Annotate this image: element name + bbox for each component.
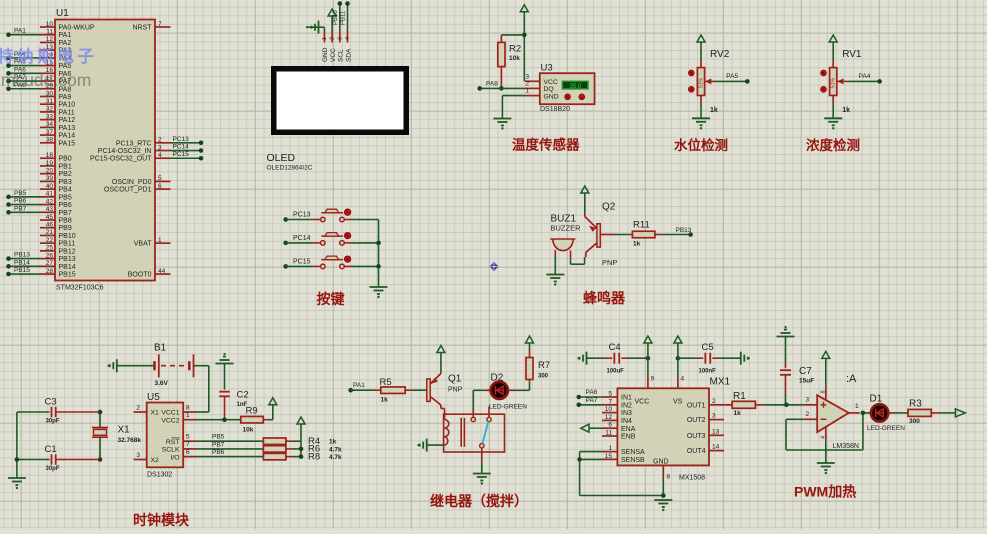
svg-text:SDA: SDA bbox=[345, 48, 352, 62]
svg-text:10: 10 bbox=[605, 406, 613, 413]
svg-text:PA1: PA1 bbox=[14, 28, 26, 35]
svg-text:PC14: PC14 bbox=[173, 144, 190, 151]
svg-text:B1: B1 bbox=[154, 343, 167, 354]
svg-text:RV1: RV1 bbox=[842, 49, 862, 60]
U1 pin 37 PA14 bbox=[40, 134, 55, 136]
svg-text:3.6V: 3.6V bbox=[155, 380, 169, 387]
svg-text:Q2: Q2 bbox=[602, 202, 616, 213]
resistor R2 10k bbox=[501, 34, 524, 36]
svg-text:OUT2: OUT2 bbox=[687, 417, 706, 424]
svg-text:PA13: PA13 bbox=[59, 125, 76, 132]
svg-text:3: 3 bbox=[158, 144, 162, 151]
svg-text:33: 33 bbox=[46, 113, 54, 120]
svg-text:1k: 1k bbox=[842, 107, 850, 114]
coil left ground bbox=[427, 444, 443, 446]
svg-text:51%: 51% bbox=[831, 77, 837, 88]
U1 pin 10 PA0-WKUP bbox=[40, 26, 55, 28]
wire D2 to R7 bbox=[508, 389, 514, 391]
svg-text:1: 1 bbox=[855, 403, 859, 410]
svg-text:45: 45 bbox=[46, 214, 54, 221]
VCC2 wire, resistor R9 10k bbox=[196, 419, 241, 421]
svg-text:PC15-OSC32_OUT: PC15-OSC32_OUT bbox=[90, 156, 152, 163]
svg-text:300: 300 bbox=[909, 418, 920, 425]
OLED body bbox=[274, 69, 407, 133]
svg-text:VCC: VCC bbox=[330, 48, 337, 62]
ground bbox=[370, 286, 388, 288]
power arrow bbox=[269, 398, 277, 405]
svg-text:PB15: PB15 bbox=[14, 267, 30, 274]
U5 pin 8 bbox=[183, 411, 196, 413]
svg-text:PC13: PC13 bbox=[293, 212, 311, 219]
svg-text:PA8: PA8 bbox=[486, 80, 498, 87]
svg-text:12: 12 bbox=[605, 414, 613, 421]
power arrow bbox=[437, 346, 445, 353]
RV1 wiper arrow to PA4 bbox=[838, 80, 848, 82]
svg-text:PB11: PB11 bbox=[59, 241, 76, 248]
U1 pin 7 NRST bbox=[155, 26, 171, 28]
svg-text:PC14-OSC32_IN: PC14-OSC32_IN bbox=[98, 148, 152, 155]
svg-text:44: 44 bbox=[158, 268, 166, 275]
ENA input arrow bbox=[589, 427, 602, 429]
svg-text:PB4: PB4 bbox=[59, 187, 72, 194]
svg-text:PWM加热: PWM加热 bbox=[794, 484, 856, 500]
feedback loop bbox=[786, 418, 803, 420]
MX1508 pin 5 IN1 bbox=[602, 396, 617, 398]
U1 pin 45 PB8 bbox=[40, 219, 55, 221]
wire PB5 bbox=[196, 440, 263, 442]
svg-text:VBAT: VBAT bbox=[134, 241, 152, 248]
svg-text:43: 43 bbox=[46, 206, 54, 213]
svg-text:DS1302: DS1302 bbox=[147, 472, 172, 479]
capacitor C3 30pF bbox=[17, 411, 50, 413]
svg-text:100uF: 100uF bbox=[607, 369, 625, 375]
svg-text:R1: R1 bbox=[733, 391, 746, 402]
svg-text:PB13: PB13 bbox=[14, 252, 30, 259]
capacitor C4 100uF bbox=[586, 352, 588, 365]
wire node PA8 bbox=[9, 88, 41, 90]
svg-text:PA5: PA5 bbox=[726, 73, 738, 80]
svg-text:18: 18 bbox=[46, 152, 54, 159]
svg-text:NRST: NRST bbox=[132, 25, 152, 32]
MX1508 pin 14 OUT4 bbox=[709, 450, 724, 452]
U1 pin 46 PB9 bbox=[40, 227, 55, 229]
U3 DS18B20 bbox=[525, 80, 540, 82]
U5 pin 6 bbox=[183, 456, 196, 458]
svg-text:1: 1 bbox=[608, 445, 612, 452]
svg-text:C1: C1 bbox=[45, 444, 57, 455]
svg-text:SENSA: SENSA bbox=[621, 449, 645, 456]
svg-text:OSCIN_PD0: OSCIN_PD0 bbox=[112, 179, 152, 186]
relay coil bbox=[441, 408, 445, 410]
capacitor C2 1nF with top ground bbox=[223, 356, 226, 358]
wires SCL/SDA to PB10/PB11 bbox=[339, 4, 341, 32]
LED D2 LED-GREEN bbox=[484, 389, 490, 391]
nodes PA6 / PA7 bbox=[579, 396, 602, 398]
svg-text:C5: C5 bbox=[702, 342, 714, 353]
svg-text:按键: 按键 bbox=[317, 291, 346, 307]
power arrow bbox=[526, 336, 534, 343]
svg-text:100nF: 100nF bbox=[699, 369, 717, 375]
wire node PA7 bbox=[9, 80, 41, 82]
wire to LED D2 bbox=[472, 390, 474, 408]
output terminal arrow bbox=[955, 409, 965, 417]
svg-text:GND: GND bbox=[653, 459, 669, 466]
svg-text:32.768k: 32.768k bbox=[118, 437, 142, 444]
common contact to ground bbox=[481, 448, 483, 463]
U1 pin 20 PB2 bbox=[40, 173, 55, 175]
power arrow bbox=[297, 417, 305, 424]
wire node PC15 bbox=[171, 157, 202, 159]
svg-text:DS18B20: DS18B20 bbox=[540, 106, 570, 113]
svg-text:ENA: ENA bbox=[621, 426, 636, 433]
svg-text:4: 4 bbox=[681, 376, 685, 383]
node PA8 / DQ wire bbox=[499, 86, 504, 91]
MX1508 pin 10 IN3 bbox=[602, 412, 617, 414]
svg-text:Q1: Q1 bbox=[448, 374, 462, 385]
svg-text:GND: GND bbox=[544, 93, 559, 100]
svg-text:RV2: RV2 bbox=[710, 49, 730, 60]
ground (OLED GND pin) bbox=[323, 27, 325, 31]
svg-text:I/O: I/O bbox=[170, 454, 179, 461]
button PC13 bbox=[283, 217, 288, 222]
svg-text:30pF: 30pF bbox=[46, 419, 60, 425]
U1 pin 2 PC13_RTC bbox=[155, 142, 171, 144]
svg-text:PB14: PB14 bbox=[14, 259, 30, 266]
U1 pin 19 PB1 bbox=[40, 165, 55, 167]
power arrow bbox=[520, 5, 528, 12]
pot RV1 bbox=[829, 35, 837, 42]
svg-text:PB10: PB10 bbox=[333, 10, 339, 25]
svg-text:R7: R7 bbox=[538, 360, 550, 371]
wire node PB7 bbox=[9, 211, 41, 213]
svg-text:11: 11 bbox=[605, 430, 612, 437]
svg-text:PA7: PA7 bbox=[586, 397, 598, 404]
resistor R3 300 bbox=[908, 409, 931, 416]
left rail to ground bbox=[16, 412, 18, 478]
U1 pin 28 PB15 bbox=[40, 273, 55, 275]
U1 pin 40 PB4 bbox=[40, 188, 55, 190]
crystal X1 32.768k bbox=[99, 412, 101, 428]
capacitor C1 30pF bbox=[17, 459, 50, 461]
relay contacts bbox=[471, 417, 475, 421]
svg-text:GND: GND bbox=[322, 47, 329, 62]
svg-text:7: 7 bbox=[186, 441, 190, 448]
svg-text:SENSB: SENSB bbox=[621, 457, 645, 464]
battery B1 3.6V bbox=[153, 361, 156, 370]
resistor R5 1k bbox=[373, 389, 381, 391]
svg-text:PB14: PB14 bbox=[59, 264, 76, 271]
svg-text:PC13: PC13 bbox=[173, 136, 190, 143]
svg-text:PB1: PB1 bbox=[59, 163, 72, 170]
svg-text:PB11: PB11 bbox=[341, 10, 347, 25]
svg-text:22: 22 bbox=[46, 237, 54, 244]
resistor R11 1k bbox=[632, 231, 655, 238]
svg-text:PB6: PB6 bbox=[14, 198, 27, 205]
transistor Q2 PNP bbox=[597, 224, 600, 247]
svg-text:41: 41 bbox=[46, 191, 54, 198]
svg-text:VCC: VCC bbox=[635, 399, 650, 406]
U1 pin 16 PA6 bbox=[40, 72, 55, 74]
svg-text:2: 2 bbox=[136, 404, 140, 411]
svg-text:35.0: 35.0 bbox=[570, 84, 582, 90]
svg-text:蜂鸣器: 蜂鸣器 bbox=[583, 290, 626, 306]
svg-text:10k: 10k bbox=[509, 55, 520, 62]
svg-text:STM32F103C6: STM32F103C6 bbox=[56, 285, 104, 292]
relay switch blade (cyan) bbox=[483, 422, 489, 444]
svg-text:PB3: PB3 bbox=[59, 179, 72, 186]
svg-text:U3: U3 bbox=[541, 63, 553, 74]
svg-text:2: 2 bbox=[806, 411, 810, 418]
svg-text:5: 5 bbox=[158, 175, 162, 182]
button bus wire to ground bbox=[378, 220, 380, 287]
svg-text:PB0: PB0 bbox=[59, 156, 72, 163]
svg-text:PA12: PA12 bbox=[59, 117, 76, 124]
resistor R1 1k bbox=[724, 404, 732, 406]
svg-text:1k: 1k bbox=[633, 241, 641, 248]
U1 pin 42 PB6 bbox=[40, 204, 55, 206]
svg-text:46: 46 bbox=[46, 222, 54, 229]
svg-text:30pF: 30pF bbox=[46, 466, 60, 472]
svg-text:1: 1 bbox=[158, 237, 162, 244]
svg-text:2: 2 bbox=[330, 37, 336, 40]
svg-text:VCC1: VCC1 bbox=[161, 410, 179, 417]
svg-text:PA11: PA11 bbox=[59, 109, 75, 116]
U1 pin 32 PA11 bbox=[40, 111, 55, 113]
RV2 buttons bbox=[688, 70, 694, 76]
svg-text:特纳斯电子: 特纳斯电子 bbox=[0, 46, 98, 66]
svg-text:PB7: PB7 bbox=[14, 205, 27, 212]
svg-text:R3: R3 bbox=[909, 399, 922, 410]
svg-text:10k: 10k bbox=[243, 427, 254, 434]
ground bbox=[654, 499, 672, 501]
svg-text:PB2: PB2 bbox=[59, 171, 72, 178]
MX1508 pin 2 OUT1 bbox=[709, 404, 724, 406]
svg-text:3: 3 bbox=[337, 37, 343, 40]
MX1508 pin 6 ENA bbox=[602, 427, 617, 429]
svg-text:5: 5 bbox=[608, 391, 612, 398]
svg-text:LED-GREEN: LED-GREEN bbox=[867, 425, 905, 432]
svg-text:3: 3 bbox=[525, 73, 529, 80]
svg-text:8: 8 bbox=[186, 404, 190, 411]
ground bbox=[546, 274, 564, 276]
GND pin 8 bbox=[662, 465, 664, 477]
U1 pin 1 VBAT bbox=[155, 242, 171, 244]
svg-text:R11: R11 bbox=[633, 220, 650, 231]
node PA1 bbox=[348, 388, 353, 393]
svg-text:21: 21 bbox=[46, 229, 54, 236]
svg-text:C4: C4 bbox=[609, 342, 621, 353]
U1 pin 26 PB13 bbox=[40, 258, 55, 260]
U1 pin 5 OSCIN_PD0 bbox=[155, 180, 171, 182]
MX1508 pin 7 IN2 bbox=[602, 404, 617, 406]
U1 pin 13 PA3 bbox=[40, 49, 55, 51]
svg-text:PA2: PA2 bbox=[59, 40, 72, 47]
svg-text:VS: VS bbox=[673, 399, 683, 406]
svg-text:1k: 1k bbox=[734, 410, 742, 417]
RV1 buttons bbox=[821, 70, 827, 76]
svg-text:1k: 1k bbox=[381, 396, 389, 403]
U5 DS1302 bbox=[147, 403, 184, 468]
U1 pin 11 PA1 bbox=[40, 34, 55, 36]
svg-text:PB5: PB5 bbox=[59, 194, 72, 201]
U1 pin 30 PA9 bbox=[40, 95, 55, 97]
svg-text:39: 39 bbox=[46, 175, 54, 182]
resistor R6 4.7k bbox=[263, 446, 286, 453]
resistor R8 4.7k bbox=[263, 453, 286, 460]
svg-text:19: 19 bbox=[46, 160, 54, 167]
svg-text:4: 4 bbox=[158, 152, 162, 159]
button PC15 bbox=[283, 264, 288, 269]
svg-text:11: 11 bbox=[46, 29, 53, 36]
SENSA/SENSB tie to ground rail bbox=[580, 451, 602, 453]
svg-text:R9: R9 bbox=[246, 406, 258, 417]
svg-text:8: 8 bbox=[821, 390, 827, 393]
U1 pin 22 PB11 bbox=[40, 242, 55, 244]
svg-text:PA9: PA9 bbox=[59, 94, 72, 101]
MX1508 pin 3 OUT2 bbox=[709, 419, 724, 421]
MX1508 body bbox=[617, 388, 709, 465]
wire PB7 bbox=[196, 448, 263, 450]
svg-text:VCC: VCC bbox=[544, 79, 558, 86]
DS18B20 buttons bbox=[565, 94, 571, 100]
svg-text:PA10: PA10 bbox=[59, 102, 76, 109]
svg-text:42: 42 bbox=[46, 198, 54, 205]
svg-text:PA1: PA1 bbox=[59, 32, 72, 39]
svg-text:PA1: PA1 bbox=[353, 382, 365, 389]
svg-text:C2: C2 bbox=[237, 390, 249, 401]
resistor R7 300 bbox=[529, 377, 531, 382]
wire node PC14 bbox=[171, 150, 202, 152]
op-amp LM358N :A bbox=[786, 404, 803, 406]
svg-text:PB10: PB10 bbox=[59, 233, 76, 240]
svg-text:2: 2 bbox=[525, 80, 529, 87]
svg-text:4: 4 bbox=[821, 436, 827, 439]
ground above C7 bbox=[784, 329, 787, 331]
svg-text:14: 14 bbox=[712, 444, 720, 451]
wire node PB14 bbox=[9, 265, 41, 267]
MX1508 pin 1 SENSA bbox=[602, 451, 617, 453]
ground (battery left) bbox=[116, 359, 118, 372]
wire node PB6 bbox=[9, 204, 41, 206]
U1 pin 41 PB5 bbox=[40, 196, 55, 198]
ground bbox=[493, 118, 511, 120]
wire node PA6 bbox=[9, 72, 41, 74]
svg-text:25: 25 bbox=[46, 245, 54, 252]
svg-text:3: 3 bbox=[806, 396, 810, 403]
svg-text:6: 6 bbox=[186, 449, 190, 456]
svg-text:PB7: PB7 bbox=[59, 210, 72, 217]
svg-text:300: 300 bbox=[538, 374, 549, 380]
svg-text:34: 34 bbox=[46, 121, 54, 128]
svg-text:SCL: SCL bbox=[338, 49, 345, 62]
wire node PB13 bbox=[9, 258, 41, 260]
RV2 wiper arrow to PA5 bbox=[705, 80, 715, 82]
U1 pin 18 PB0 bbox=[40, 157, 55, 159]
OLED pin stubs 1-4 bbox=[323, 31, 325, 43]
svg-text:27: 27 bbox=[46, 260, 54, 267]
U1 pin 39 PB3 bbox=[40, 180, 55, 182]
svg-text:C7: C7 bbox=[799, 366, 812, 377]
svg-text:6: 6 bbox=[608, 422, 612, 429]
svg-text:时钟模块: 时钟模块 bbox=[133, 512, 190, 528]
U5 pin 5 bbox=[183, 440, 196, 442]
svg-text:RST: RST bbox=[166, 439, 180, 446]
svg-text:20: 20 bbox=[46, 167, 54, 174]
wire node PB15 bbox=[9, 273, 41, 275]
svg-text:温度传感器: 温度传感器 bbox=[512, 137, 580, 153]
U5 pin 7 bbox=[183, 448, 196, 450]
svg-text:4: 4 bbox=[345, 37, 351, 40]
wire node PA1 bbox=[9, 34, 41, 36]
button PC14 bbox=[283, 241, 288, 246]
svg-text:13: 13 bbox=[712, 428, 720, 435]
svg-text:PB7: PB7 bbox=[212, 441, 225, 448]
svg-text:IN3: IN3 bbox=[621, 410, 632, 417]
svg-text:.mcude.com: .mcude.com bbox=[0, 70, 91, 90]
svg-text:PA14: PA14 bbox=[59, 133, 76, 140]
svg-text:PB5: PB5 bbox=[212, 434, 225, 441]
svg-text:PB9: PB9 bbox=[59, 225, 72, 232]
power arrow (OLED VCC pin) bbox=[328, 9, 336, 16]
U1 pin 3 PC14-OSC32_IN bbox=[155, 150, 171, 152]
svg-text:X1: X1 bbox=[151, 410, 160, 417]
svg-text:7: 7 bbox=[608, 398, 612, 405]
svg-text:PB13: PB13 bbox=[59, 256, 76, 263]
U1 pin 12 PA2 bbox=[40, 41, 55, 43]
U1 pin 25 PB12 bbox=[40, 250, 55, 252]
svg-text:PB6: PB6 bbox=[59, 202, 72, 209]
svg-text:12: 12 bbox=[46, 36, 54, 43]
U1 pin 27 PB14 bbox=[40, 265, 55, 267]
svg-text:2: 2 bbox=[712, 398, 716, 405]
svg-text:D1: D1 bbox=[870, 394, 883, 405]
svg-text:ENB: ENB bbox=[621, 434, 636, 441]
buzzer legs bbox=[554, 250, 556, 256]
svg-text:1: 1 bbox=[186, 412, 190, 419]
power arrow bbox=[581, 186, 589, 193]
svg-text:OSCOUT_PD1: OSCOUT_PD1 bbox=[104, 187, 152, 194]
svg-text:4.7k: 4.7k bbox=[329, 446, 342, 453]
op-amp power pin 8 bbox=[825, 387, 827, 400]
svg-text:VCC2: VCC2 bbox=[161, 417, 179, 424]
svg-text:PB15: PB15 bbox=[59, 272, 76, 279]
ground bbox=[8, 477, 26, 479]
svg-text:IN1: IN1 bbox=[621, 395, 632, 402]
svg-text:SCLK: SCLK bbox=[162, 447, 180, 454]
capacitor C7 15uF bbox=[785, 362, 787, 368]
svg-text:PNP: PNP bbox=[448, 387, 463, 394]
svg-text:6: 6 bbox=[158, 183, 162, 190]
VS rail with power arrow bbox=[676, 356, 681, 361]
svg-text:1: 1 bbox=[322, 37, 328, 40]
svg-text:10: 10 bbox=[46, 21, 54, 28]
svg-text:PC13_RTC: PC13_RTC bbox=[116, 140, 152, 147]
output pin 1 bbox=[849, 412, 860, 414]
svg-text:PB6: PB6 bbox=[212, 449, 225, 456]
svg-text:38: 38 bbox=[46, 137, 54, 144]
svg-text:U5: U5 bbox=[147, 392, 160, 403]
svg-text:3: 3 bbox=[136, 452, 140, 459]
wire to R3 bbox=[888, 412, 894, 414]
U5 pin 1 bbox=[183, 419, 196, 421]
relay body bbox=[444, 414, 505, 452]
svg-text:OUT1: OUT1 bbox=[687, 402, 706, 409]
svg-text:PB12: PB12 bbox=[59, 248, 76, 255]
wire PB6 bbox=[196, 456, 263, 458]
svg-text:PC15: PC15 bbox=[173, 151, 190, 158]
svg-text:PA0-WKUP: PA0-WKUP bbox=[59, 25, 95, 32]
svg-text:继电器（搅拌）: 继电器（搅拌） bbox=[430, 493, 528, 509]
